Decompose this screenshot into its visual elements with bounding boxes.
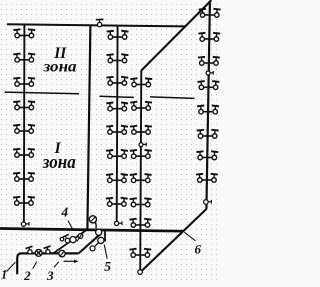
halftone paper background (0, 0, 221, 282)
sprinkler pair N7 (130, 219, 152, 228)
wire: bottom-right diagonal (141, 209, 207, 272)
label 4 (60, 204, 68, 219)
label 3 (46, 268, 54, 283)
sprinkler pair N2 (130, 102, 152, 111)
small circle C (90, 246, 95, 251)
label 6 (195, 241, 202, 256)
svg-text:3: 3 (46, 268, 54, 282)
sprinkler pair R6 (197, 130, 219, 138)
device 3 (circle) on supply pipe (59, 250, 65, 256)
sprinkler pair L1 (13, 29, 35, 37)
wire: bottom main pipe (0, 229, 183, 232)
sprinkler pair N6 (130, 198, 152, 207)
label 3 leader (54, 262, 59, 267)
svg-text:5: 5 (104, 259, 111, 274)
drop pipe right of control unit (104, 230, 106, 242)
wire: main riser (87, 25, 90, 228)
svg-text:1: 1 (1, 268, 7, 282)
gauge circle with slash above bottom main (89, 216, 96, 229)
sprinkler pair N1 (130, 78, 152, 87)
bypass circle b (65, 238, 70, 243)
label 6 leader (184, 232, 195, 241)
wire: right riser (front) (206, 3, 210, 210)
sprinkler pair L2 (13, 54, 35, 62)
sprinkler pair M6 (106, 150, 128, 159)
sprinkler pair L6 (13, 149, 35, 157)
flow direction arrow (64, 260, 79, 264)
sprinkler pair R1 (199, 9, 221, 17)
wire: middle branch pipe 1 (116, 25, 119, 221)
sprinkler pair M4 (106, 102, 128, 111)
label 4 leader (68, 221, 73, 231)
main diagonal pipe of control unit (79, 234, 100, 253)
svg-text:4: 4 (60, 204, 68, 219)
zone divider middle segment (100, 96, 134, 97)
supply pipe riser with elbow (17, 253, 78, 274)
sprinkler pair N4 (130, 150, 152, 159)
link B to C (95, 243, 98, 246)
sprinkler pair M1 (107, 31, 129, 40)
sprinkler pair M7 (106, 174, 128, 183)
wire: middle branch pipe 2 (140, 70, 141, 269)
valve V2 on supply pipe (44, 246, 51, 254)
sprinkler pair L7 (13, 173, 35, 181)
sprinkler pair R4 (198, 81, 220, 89)
sprinkler pair R2 (198, 33, 220, 41)
bypass valve T (63, 234, 69, 239)
zone divider left segment (5, 92, 79, 94)
label 5 (104, 259, 111, 274)
bypass circle c (70, 237, 76, 243)
label 2 leader (33, 262, 37, 269)
sprinkler pair M2 (107, 54, 129, 63)
sprinkler pair M8 (106, 198, 128, 207)
gate valve 2 (circle with cross) (35, 250, 42, 257)
bottom node of branch 2 (138, 270, 143, 275)
sprinkler pair M3 (106, 77, 128, 86)
label 5 leader (104, 245, 107, 259)
label 1 (1, 268, 7, 282)
end node of middle branch 1 (115, 221, 122, 225)
bypass diagonal pipe (54, 230, 88, 254)
sprinkler pair N3 (130, 126, 152, 135)
sprinkler pair R8 (196, 174, 218, 182)
label 2 (23, 268, 31, 283)
sprinkler pair N8 (129, 249, 151, 258)
label zone I numeral (54, 140, 62, 157)
sprinkler pair R5 (197, 106, 219, 114)
valve V1 on supply pipe (26, 246, 33, 254)
wire: left branch pipe (23, 25, 26, 222)
sprinkler pair N5 (130, 174, 152, 183)
sprinkler pair M5 (106, 126, 128, 135)
control-valve circle A (96, 229, 102, 235)
label 1 leader (6, 262, 15, 271)
sprinkler pair L3 (13, 78, 35, 86)
wire: roof diagonal to apex (141, 0, 211, 70)
svg-text:2: 2 (23, 268, 31, 282)
zone divider right segment (150, 97, 195, 99)
node on right riser upper (206, 71, 213, 75)
signal device circle with slash (item 4 target) (78, 234, 83, 239)
mid node on branch 2 (139, 143, 146, 147)
label zone I word (42, 152, 76, 173)
sprinkler pair L5 (13, 125, 35, 133)
node on right riser lower (204, 200, 212, 205)
svg-text:зона: зона (42, 152, 76, 173)
end node of left branch (21, 222, 29, 226)
control-valve circle B (98, 237, 104, 243)
label zone II numeral (53, 45, 67, 62)
svg-text:зона: зона (43, 59, 77, 76)
sprinkler pair R3 (198, 57, 220, 65)
slash through device 3 (60, 251, 65, 257)
label zone II word (43, 59, 77, 76)
svg-text:6: 6 (195, 241, 202, 256)
bypass small circle a (60, 237, 64, 241)
sprinkler pair L4 (13, 101, 35, 109)
sprinkler pair R7 (196, 151, 218, 159)
upright sprinkler on top pipe (96, 19, 104, 26)
slash through signal device (77, 231, 85, 242)
sprinkler pair L8 (13, 197, 35, 205)
wire: top feed pipe (7, 24, 185, 26)
